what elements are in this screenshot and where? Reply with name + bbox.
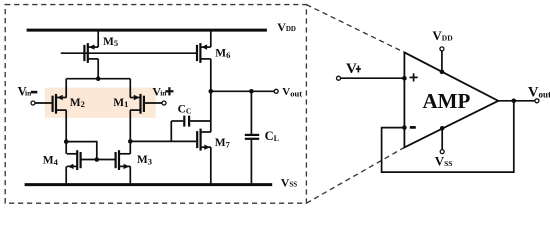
svg-text:V: V — [346, 61, 357, 77]
svg-text:CL: CL — [265, 129, 279, 143]
svg-text:VDD: VDD — [277, 20, 296, 34]
svg-text:in: in — [25, 89, 32, 98]
svg-text:VSS: VSS — [281, 175, 298, 189]
svg-text:M3: M3 — [137, 154, 152, 166]
svg-text:CC: CC — [178, 104, 192, 116]
svg-text:in: in — [160, 89, 167, 98]
svg-text:Vout: Vout — [528, 84, 550, 100]
svg-text:Vout: Vout — [282, 86, 302, 98]
svg-text:VSS: VSS — [435, 153, 453, 168]
svg-text:VDD: VDD — [432, 28, 453, 43]
svg-text:M5: M5 — [103, 36, 118, 48]
svg-text:M7: M7 — [215, 137, 231, 149]
svg-text:M1: M1 — [113, 97, 128, 109]
svg-text:M2: M2 — [70, 97, 85, 109]
svg-text:AMP: AMP — [423, 89, 471, 113]
svg-text:M6: M6 — [215, 48, 230, 60]
svg-text:M4: M4 — [43, 155, 59, 167]
